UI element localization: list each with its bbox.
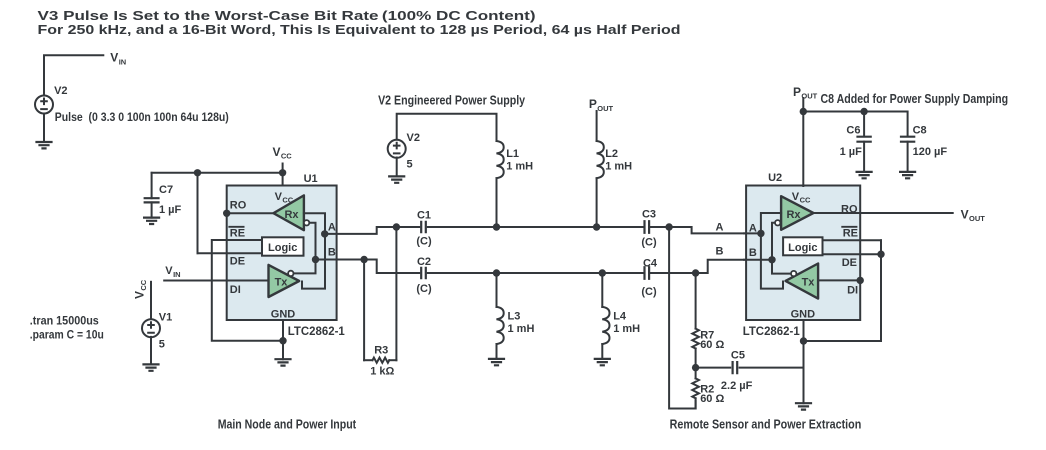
svg-text:B: B: [328, 246, 336, 258]
svg-text:.param C = 10u: .param C = 10u: [30, 328, 104, 342]
svg-text:V: V: [961, 207, 969, 221]
svg-text:RO: RO: [230, 200, 247, 212]
svg-text:Pulse (0 3.3 0 100n 100n 64u: Pulse (0 3.3 0 100n 100n 64u 128u): [55, 112, 229, 124]
svg-text:U1: U1: [304, 173, 318, 185]
svg-text:1 mH: 1 mH: [506, 161, 533, 173]
svg-text:OUT: OUT: [969, 214, 985, 223]
svg-text:1 mH: 1 mH: [508, 323, 535, 335]
svg-text:1 mH: 1 mH: [613, 323, 640, 335]
svg-text:C3: C3: [642, 209, 656, 221]
svg-text:Tx: Tx: [802, 276, 816, 288]
svg-text:(C): (C): [416, 236, 432, 248]
svg-text:60 Ω: 60 Ω: [700, 339, 724, 351]
svg-text:Rx: Rx: [786, 209, 801, 221]
svg-text:V2 Engineered Power Supply: V2 Engineered Power Supply: [378, 92, 526, 107]
svg-text:RE: RE: [843, 227, 858, 239]
svg-text:V3 Pulse Is Set to the Worst-C: V3 Pulse Is Set to the Worst-Case Bit Ra…: [38, 8, 536, 23]
svg-text:A: A: [716, 222, 724, 234]
svg-text:DI: DI: [230, 284, 241, 296]
svg-text:V: V: [165, 265, 173, 277]
svg-text:C6: C6: [846, 124, 860, 136]
svg-text:B: B: [716, 245, 724, 257]
svg-text:L4: L4: [613, 311, 627, 323]
svg-text:Rx: Rx: [284, 209, 299, 221]
svg-text:A: A: [749, 223, 757, 235]
svg-text:1 kΩ: 1 kΩ: [370, 366, 394, 378]
svg-text:(C): (C): [641, 286, 657, 298]
svg-text:V2: V2: [407, 132, 420, 144]
svg-text:CC: CC: [281, 151, 292, 160]
svg-text:DE: DE: [842, 257, 857, 269]
svg-text:For 250 kHz, and a 16-Bit Word: For 250 kHz, and a 16-Bit Word, This Is …: [38, 22, 681, 37]
svg-text:2.2 µF: 2.2 µF: [721, 380, 753, 392]
svg-text:.tran 15000us: .tran 15000us: [30, 314, 99, 328]
svg-text:GND: GND: [271, 309, 296, 321]
svg-text:C5: C5: [731, 349, 745, 361]
svg-text:Logic: Logic: [268, 242, 297, 254]
svg-text:(C): (C): [416, 283, 432, 295]
svg-text:V: V: [133, 291, 147, 299]
svg-text:DE: DE: [230, 255, 245, 267]
svg-text:120 µF: 120 µF: [913, 146, 948, 158]
svg-text:OUT: OUT: [597, 104, 613, 113]
svg-text:IN: IN: [119, 57, 127, 66]
svg-text:P: P: [793, 85, 801, 99]
svg-text:1 mH: 1 mH: [605, 161, 632, 173]
svg-text:DI: DI: [847, 285, 858, 297]
svg-text:B: B: [749, 247, 757, 259]
svg-text:L2: L2: [605, 148, 618, 160]
svg-text:L3: L3: [508, 311, 521, 323]
svg-text:Main Node and Power Input: Main Node and Power Input: [218, 418, 357, 432]
svg-text:IN: IN: [173, 270, 181, 279]
svg-text:LTC2862-1: LTC2862-1: [288, 326, 346, 338]
svg-text:L1: L1: [506, 148, 519, 160]
svg-text:U2: U2: [768, 172, 782, 184]
svg-text:R3: R3: [374, 345, 388, 357]
svg-text:(C): (C): [641, 237, 657, 249]
svg-text:LTC2862-1: LTC2862-1: [743, 326, 801, 338]
svg-text:Tx: Tx: [275, 276, 289, 288]
svg-text:V2: V2: [54, 85, 67, 97]
svg-text:P: P: [589, 97, 597, 111]
svg-text:C8 Added for Power Supply Damp: C8 Added for Power Supply Damping: [821, 91, 1009, 106]
svg-text:V: V: [273, 145, 281, 159]
svg-text:5: 5: [159, 339, 165, 351]
svg-text:CC: CC: [800, 195, 811, 204]
svg-text:V: V: [275, 191, 283, 203]
svg-text:V1: V1: [159, 312, 172, 324]
svg-text:C1: C1: [417, 210, 431, 222]
svg-text:RE: RE: [230, 227, 245, 239]
svg-text:1 µF: 1 µF: [159, 204, 182, 216]
svg-text:1 µF: 1 µF: [840, 146, 863, 158]
svg-text:V: V: [110, 51, 118, 65]
svg-text:C8: C8: [913, 124, 927, 136]
svg-text:A: A: [328, 222, 336, 234]
svg-text:60 Ω: 60 Ω: [700, 393, 724, 405]
svg-text:5: 5: [407, 159, 413, 171]
svg-text:RO: RO: [841, 203, 858, 215]
svg-text:C7: C7: [159, 184, 173, 196]
svg-text:CC: CC: [139, 279, 148, 290]
svg-text:Logic: Logic: [788, 242, 817, 254]
svg-text:C4: C4: [643, 258, 658, 270]
svg-text:V: V: [792, 191, 800, 203]
svg-text:Remote Sensor and Power Extrac: Remote Sensor and Power Extraction: [670, 418, 862, 432]
svg-text:GND: GND: [791, 309, 816, 321]
svg-text:C2: C2: [417, 256, 431, 268]
